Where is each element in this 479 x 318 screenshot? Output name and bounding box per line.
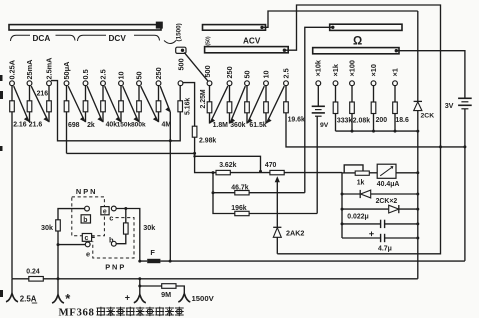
PNP dashed box (93, 218, 134, 258)
resistor 200 (373, 86, 375, 102)
resistor 360k (246, 86, 248, 102)
svg-text:2.16: 2.16 (13, 121, 27, 128)
svg-text:50μA: 50μA (62, 61, 71, 80)
wire shunt bump over 1k (344, 165, 363, 173)
node 3.62k left (212, 171, 215, 174)
svg-text:0.24: 0.24 (26, 269, 40, 276)
wire 3V battery negative down to F wire (464, 109, 466, 261)
svg-text:9M: 9M (161, 290, 171, 299)
resistor 150k (120, 86, 122, 101)
wire switch chain diagonal (31, 86, 48, 122)
svg-text:40.4μA: 40.4μA (377, 181, 400, 188)
wire resistor bottom lead (102, 112, 104, 122)
wire ACV resistor bottom lead (229, 113, 231, 124)
switch contact 50uA (64, 81, 69, 86)
svg-text:216: 216 (37, 91, 49, 98)
wire rail2 698 to 2.98k (67, 152, 195, 154)
socket contact right of e-box (111, 206, 116, 211)
svg-text:25mA: 25mA (25, 59, 34, 80)
svg-text:250: 250 (154, 67, 163, 79)
svg-text:1.8M: 1.8M (213, 122, 229, 129)
node row4 rails (341, 222, 344, 225)
switch contact 50V (137, 81, 142, 86)
switch contact x10k (316, 81, 321, 86)
resistor 46.7k (235, 191, 249, 195)
switch contact x1 (393, 81, 398, 86)
diode 2CKx2 second (cathode right) (342, 208, 388, 210)
svg-text:P N P: P N P (105, 263, 124, 272)
node 46.7k row left (212, 191, 215, 194)
wire 2.5mA contact tap to rail1 (51, 81, 180, 141)
wire resistor bottom lead (29, 112, 31, 122)
svg-text:Ω: Ω (353, 36, 362, 48)
wire resistor bottom lead (120, 112, 122, 122)
svg-text:e: e (103, 208, 107, 215)
svg-text:40k: 40k (106, 121, 118, 128)
capacitor 0.022u (342, 223, 381, 225)
wire ohm resistor bottom lead (373, 114, 375, 132)
resistor 30k left (56, 220, 61, 231)
switch contact 500VDC (178, 81, 183, 86)
svg-text:50: 50 (242, 70, 251, 78)
svg-text:2CK: 2CK (421, 113, 435, 120)
wire ohm resistor bottom lead (394, 114, 396, 132)
wire ohm resistor bottom lead (351, 114, 353, 132)
wire ACV resistor bottom lead (209, 113, 211, 124)
svg-text:2.5: 2.5 (99, 69, 108, 79)
svg-text:×10: ×10 (369, 64, 378, 76)
node ohm bar2 right end (395, 49, 398, 52)
svg-text:10: 10 (261, 70, 270, 78)
wire vertical from 250V diagonal to F junction (169, 112, 171, 261)
svg-text:ACV: ACV (243, 37, 261, 46)
resistor 196k (235, 211, 249, 215)
svg-text:0.5: 0.5 (81, 69, 90, 79)
wire 1k to meter to right rail (369, 172, 377, 174)
node e-wire junction (57, 243, 60, 246)
svg-text:0.022μ: 0.022μ (347, 214, 368, 221)
switch contact x1k (333, 81, 338, 86)
svg-text:c: c (85, 235, 89, 242)
resistor 61.5k (265, 86, 267, 102)
svg-text:2CK×2: 2CK×2 (376, 198, 398, 205)
resistor 5.16k (179, 86, 181, 101)
socket contact b lower right (111, 241, 116, 246)
svg-text:30k: 30k (41, 223, 53, 232)
socket square c (82, 234, 91, 242)
potentiometer 470 (270, 170, 284, 174)
socket square e (101, 207, 109, 215)
svg-text:19.6k: 19.6k (288, 116, 305, 123)
resistor 2.16 (11, 86, 13, 101)
wire 19.6k bottom to battery column (286, 113, 465, 147)
svg-text:e: e (86, 250, 90, 259)
node ohm rail junction (394, 130, 397, 133)
svg-text:N P N: N P N (76, 187, 96, 196)
wire R 2.16 bottom to left rail (down to bottom) (11, 112, 13, 279)
switch contact 250VAC (227, 81, 232, 86)
svg-text:F: F (150, 248, 155, 257)
svg-text:×100: ×100 (347, 60, 356, 76)
svg-text:196k: 196k (231, 205, 246, 212)
svg-text:500: 500 (177, 58, 186, 70)
svg-text:5.16k: 5.16k (184, 98, 191, 115)
resistor 2.25M (209, 86, 211, 102)
node 19.6k wire at x440 (439, 145, 442, 148)
polarity plus for 4.7u (369, 232, 374, 237)
svg-text:9V: 9V (320, 122, 329, 129)
svg-text:+: + (125, 292, 130, 302)
wire meter block left rail (341, 173, 343, 238)
terminal star (57, 279, 59, 295)
svg-text:2.5A: 2.5A (20, 295, 37, 304)
node row5 right (416, 237, 419, 240)
svg-text:b: b (83, 217, 87, 224)
svg-text:4.7μ: 4.7μ (378, 245, 392, 252)
svg-text:10: 10 (117, 71, 126, 79)
svg-text:2.5mA: 2.5mA (45, 57, 54, 80)
ACV lower wiper bar (205, 47, 289, 53)
node ohm rail to 2CK column (416, 130, 419, 133)
wire resistor bottom lead (48, 112, 50, 122)
svg-text:1k: 1k (357, 179, 365, 186)
svg-text:×1: ×1 (390, 68, 399, 76)
resistor 2.08k (351, 86, 353, 102)
resistor 2.98k (192, 126, 197, 137)
DCV section label with brace (78, 35, 107, 41)
wire ACV bar2 to right column (top route y=5) (277, 5, 440, 254)
switch contact 10V (119, 81, 124, 86)
wire resistor bottom lead (138, 112, 140, 122)
wire e-contact to plus riser (116, 209, 140, 262)
wire branch 2.98k column to 470 junction (195, 156, 261, 171)
svg-text:21.6: 21.6 (29, 121, 43, 128)
resistor 3.62k (216, 170, 230, 174)
svg-text:DCA: DCA (33, 34, 51, 43)
resistor 19.6k (285, 86, 287, 102)
ohm upper wiper bar (330, 24, 402, 30)
wire left rail to 1k (342, 172, 355, 174)
switch contact 500V square with dot (176, 47, 186, 53)
socket contact NPN top left (85, 206, 90, 211)
svg-text:DCV: DCV (109, 34, 127, 43)
NPN dashed box (72, 197, 105, 236)
resistor 4M (158, 86, 160, 101)
svg-text:0.25A: 0.25A (8, 59, 17, 79)
svg-text:2k: 2k (87, 122, 95, 129)
wire 500VDC contact tap (183, 83, 195, 127)
svg-text:2.25M: 2.25M (200, 89, 207, 108)
terminal 2.5A (11, 279, 13, 293)
node 9M tap (138, 285, 141, 288)
resistor 698 (66, 86, 68, 101)
wire ACV switch chain diagonal (210, 86, 228, 123)
svg-text:800k: 800k (131, 121, 146, 128)
battery 9V (317, 86, 319, 107)
wire switch chain diagonal (87, 86, 102, 122)
terminal plus (139, 279, 141, 294)
svg-text:50: 50 (135, 71, 144, 79)
switch contact 2.5VAC (284, 81, 289, 86)
node ohm rail junction (372, 130, 375, 133)
wire R 698 bottom lead down to rail2 (66, 112, 68, 154)
scan artifact marks on left edge (0, 75, 3, 81)
node ohm bar1 left end (331, 26, 334, 29)
svg-text:46.7k: 46.7k (231, 184, 248, 191)
wire ohm bar1 left tap down to 46.7k row (305, 27, 333, 192)
switch contact 2.5V (101, 81, 106, 86)
wire 30k left bottom to star riser (57, 231, 59, 279)
resistor 216 (48, 86, 50, 101)
socket square b (81, 215, 90, 223)
wire 470 row (216, 172, 342, 174)
svg-text:30k: 30k (143, 223, 155, 232)
svg-text:(50): (50) (205, 36, 211, 45)
svg-text:MF368: MF368 (59, 307, 95, 318)
wire 2.98k bottom through rail2 junction down to 470 row (195, 137, 216, 172)
node 470 left junction (259, 170, 262, 173)
wire switch chain diagonal (123, 86, 139, 122)
node meter row right (416, 171, 419, 174)
resistor 2k (85, 86, 87, 101)
node row3 rails (341, 208, 344, 211)
diode 2CKx2 first (cathode left) (342, 193, 360, 195)
wire ACV resistor bottom lead (246, 113, 248, 124)
node star junction (57, 277, 60, 280)
wire switch chain diagonal (141, 86, 158, 122)
wire NPN top-left contact to 30k column (58, 209, 85, 220)
svg-text:c: c (109, 213, 113, 222)
svg-text:×10k: ×10k (313, 59, 322, 76)
wire 46.7k row (213, 173, 305, 193)
svg-text:2.08k: 2.08k (353, 118, 370, 125)
diode 2CK (417, 11, 419, 101)
switch contact 250V (156, 81, 161, 86)
ACV upper wiper bar (203, 25, 266, 31)
meter 40.4uA (377, 164, 396, 178)
wire ohm bar2 to 3V battery (396, 51, 465, 99)
socket contact e lower (85, 242, 90, 247)
node battery column at 19.6k wire (463, 145, 466, 148)
ohm lower wiper bar (313, 48, 399, 54)
node 30k right tap (124, 207, 127, 210)
node row2 rails (341, 193, 344, 196)
switch contact 50VAC (245, 81, 250, 86)
wire ACV bar1 to 2CK column (top route y=11) (262, 11, 418, 27)
svg-text:500: 500 (203, 65, 212, 77)
resistor 30k right (125, 209, 127, 223)
DCA section label with brace (11, 35, 31, 41)
caption Chinese text (97, 307, 106, 316)
wire F row to battery column (140, 260, 465, 262)
switch contact 25mA (27, 81, 32, 86)
switch contact x100 (350, 81, 355, 86)
svg-text:470: 470 (265, 162, 277, 169)
wire diagonal 500V square to ACV 500 contact (184, 52, 208, 81)
node ohm rail junction (351, 130, 354, 133)
node ACV bar1 right end (260, 26, 263, 29)
node rail2 right end (193, 152, 196, 155)
svg-text:2.5: 2.5 (281, 68, 290, 78)
wire ACV switch chain diagonal (230, 86, 245, 123)
diode 2AK2 with pot arrow (276, 182, 278, 228)
terminal 1500V (178, 294, 190, 302)
node F left (138, 260, 141, 263)
node ACV bar2 right end (283, 49, 286, 52)
svg-text:3.62k: 3.62k (219, 162, 236, 169)
switch contact x10 (371, 81, 376, 86)
wire ACV resistor bottom lead (265, 113, 267, 124)
resistor 9M (162, 284, 176, 289)
switch contact 10VAC (264, 81, 269, 86)
wire 2CK cathode column down (meter right rail) (417, 111, 419, 279)
svg-text:×1k: ×1k (331, 63, 340, 76)
battery 3V (458, 97, 472, 99)
svg-text:1500V: 1500V (192, 294, 215, 303)
wire e contact to riser (58, 244, 85, 246)
switch contact 500VAC (207, 81, 212, 86)
wire resistor bottom lead (158, 112, 160, 122)
svg-text:150k: 150k (117, 121, 132, 128)
svg-text:698: 698 (68, 122, 80, 129)
wire switch chain diagonal (68, 86, 85, 122)
svg-text:18.6: 18.6 (395, 117, 409, 124)
node F right junction (169, 260, 172, 263)
node rail1 x170 (169, 139, 172, 142)
svg-text:(1500): (1500) (176, 23, 183, 41)
wire diagonal from 250V contact (160, 86, 170, 112)
resistor 1.8M (229, 86, 231, 102)
switch contact 2.5mA (47, 81, 52, 86)
svg-text:250: 250 (225, 66, 234, 78)
svg-text:61.5k: 61.5k (249, 122, 266, 129)
fuse F (147, 259, 160, 263)
resistor 21.6 (29, 86, 31, 101)
resistor 1k (355, 171, 369, 175)
svg-text:3V: 3V (445, 101, 454, 110)
wire switch chain diagonal (14, 86, 29, 122)
resistor 333k (335, 86, 337, 102)
wire 196k row (213, 193, 317, 214)
resistor 800k (138, 86, 140, 101)
resistor 40k (102, 86, 104, 101)
wire ACV switch chain diagonal (248, 86, 265, 123)
switch contact 0.25A (10, 81, 15, 86)
wiper bar end contact square (1500V) (156, 22, 163, 29)
svg-text:2.98k: 2.98k (199, 138, 216, 145)
wire star row (bottom bus) (12, 278, 418, 280)
wire ACV switch chain diagonal (267, 86, 285, 123)
node plus riser at star row (138, 277, 141, 280)
wire 30k right bottom to b contact (116, 234, 126, 244)
DCA/DCV selector wiper bar (9, 25, 161, 30)
wire 9M row (140, 286, 185, 293)
wire ohm bottom rail (336, 130, 418, 132)
wire 9V battery negative down to 196k row (316, 116, 318, 213)
wire switch chain diagonal (105, 86, 121, 122)
switch contact 0.5V (83, 81, 88, 86)
wire ohm resistor bottom lead (335, 114, 337, 132)
svg-text:360k: 360k (230, 122, 245, 129)
wire resistor bottom lead (85, 112, 87, 122)
capacitor 4.7u electrolytic (342, 237, 381, 239)
svg-text:2AK2: 2AK2 (286, 229, 304, 238)
resistor 18.6 (394, 86, 396, 102)
wire c-box stub (92, 236, 95, 238)
svg-text:200: 200 (376, 117, 388, 124)
resistor 0.24 (29, 277, 44, 282)
svg-text:333k: 333k (337, 118, 352, 125)
